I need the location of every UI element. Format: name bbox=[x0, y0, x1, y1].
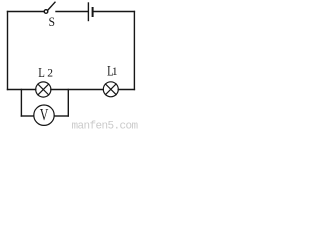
svg-text:S: S bbox=[49, 14, 56, 29]
svg-text:manfen5.com: manfen5.com bbox=[72, 121, 139, 132]
svg-text:1: 1 bbox=[112, 66, 118, 78]
svg-text:V: V bbox=[40, 106, 49, 124]
svg-text:2: 2 bbox=[47, 68, 53, 80]
svg-text:L: L bbox=[38, 65, 45, 80]
